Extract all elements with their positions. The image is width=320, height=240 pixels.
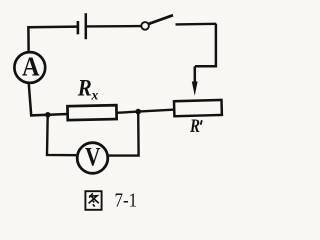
svg-text:R: R (189, 117, 200, 137)
caption glyph tu (figure) (85, 191, 101, 210)
svg-text:V: V (85, 141, 101, 171)
wiper arrow shaft (194, 66, 197, 84)
switch pivot circle (141, 22, 149, 30)
wire top-left corner to battery (28, 27, 77, 51)
wire ammeter down to Rx row (29, 84, 68, 115)
battery cell: short plate (77, 21, 80, 34)
rheostat R' box (174, 100, 222, 116)
node left junction dot (45, 112, 51, 118)
node right junction dot (135, 109, 141, 115)
wiper arrowhead (192, 82, 198, 96)
wire battery to switch (86, 25, 141, 28)
svg-text:A: A (22, 51, 40, 81)
voltmeter V (77, 141, 108, 173)
wire right vertical (195, 24, 216, 67)
svg-text:x: x (91, 88, 99, 103)
wire switch to right corner (176, 23, 217, 26)
svg-text:R: R (77, 76, 92, 101)
ammeter A (14, 51, 45, 82)
label R' (189, 117, 202, 137)
switch blade (149, 15, 173, 24)
label Rx (77, 76, 99, 103)
battery cell: long plate (85, 13, 88, 39)
resistor Rx box (67, 105, 116, 120)
wire node to rheostat (138, 110, 175, 112)
wire left node down to voltmeter (47, 115, 76, 155)
wire Rx box to right node (117, 112, 139, 113)
wire voltmeter to right node (109, 112, 139, 156)
svg-text:7-1: 7-1 (115, 189, 138, 211)
